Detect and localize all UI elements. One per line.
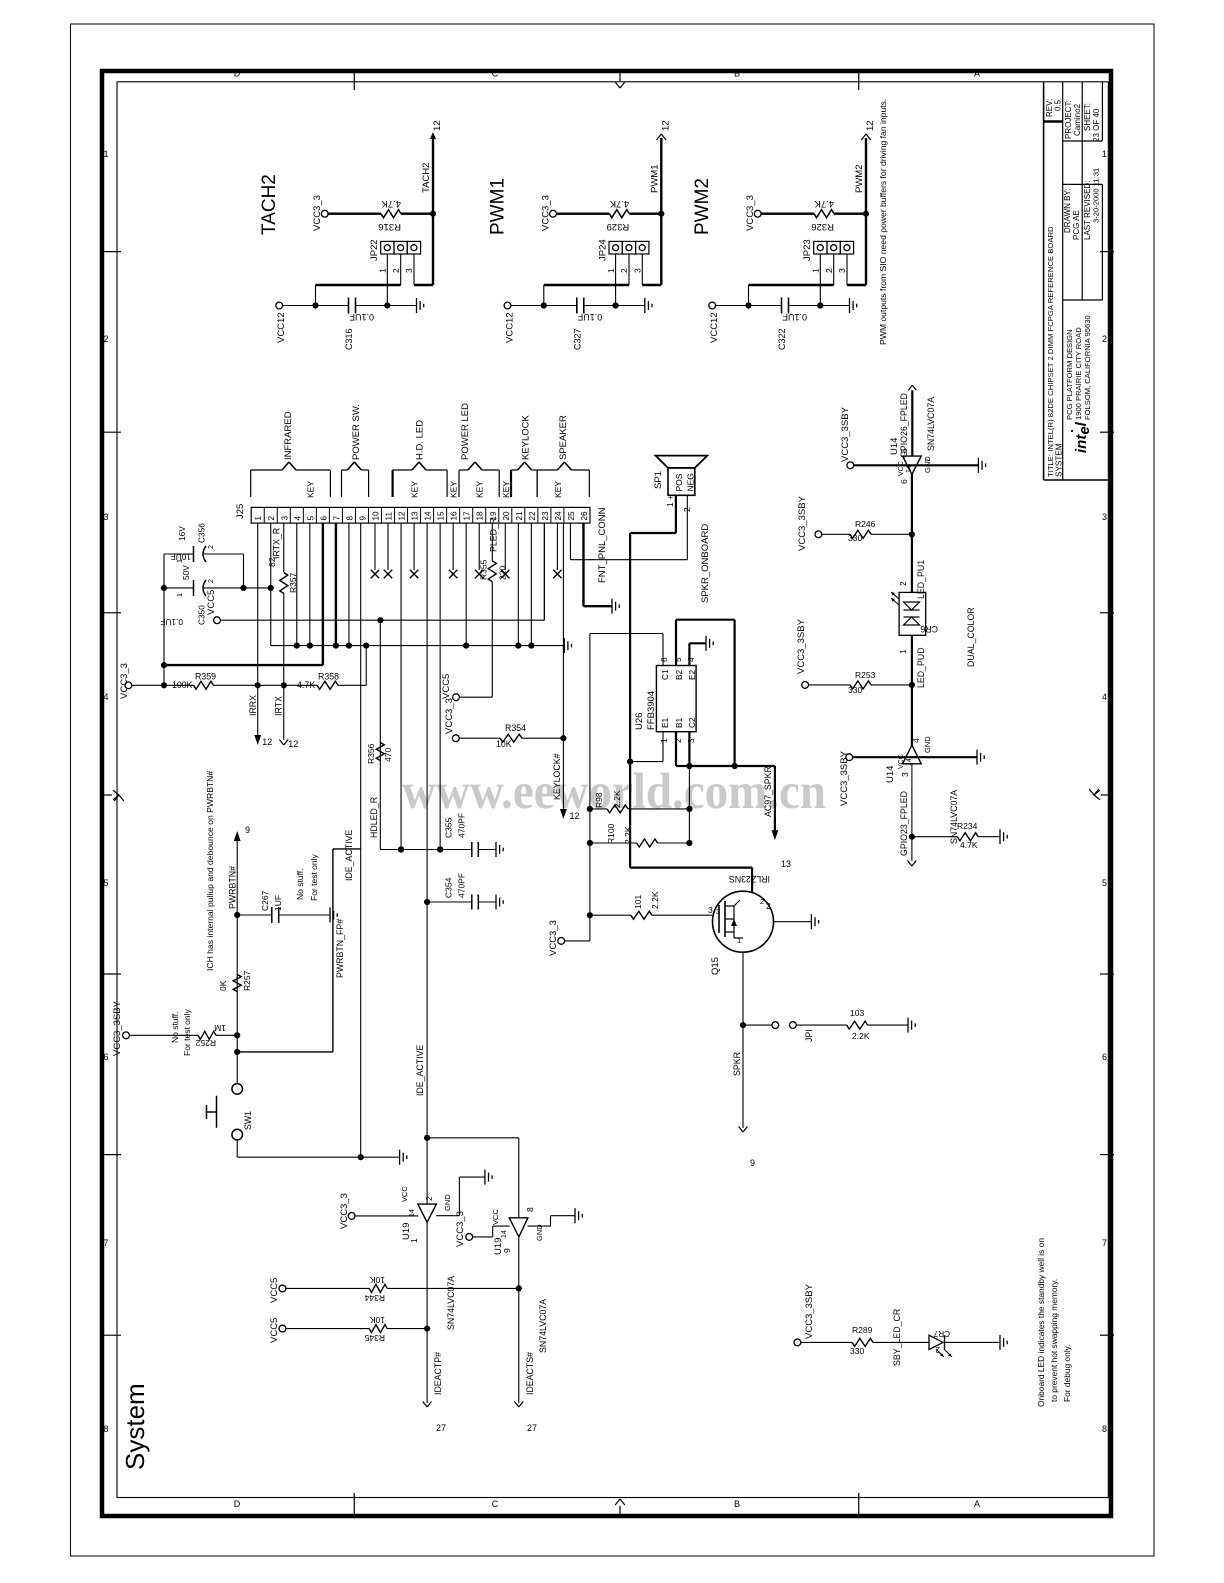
svg-text:KEY: KEY	[305, 481, 315, 498]
svg-text:GND: GND	[535, 1224, 544, 1241]
svg-text:to prevent hot swapping memory: to prevent hot swapping memory.	[1049, 1279, 1059, 1402]
svg-text:0.5: 0.5	[1054, 99, 1063, 111]
svg-text:B2: B2	[674, 669, 684, 680]
arrow IRRX to 12	[254, 735, 261, 745]
wire pin15	[439, 523, 441, 849]
svg-text:12: 12	[570, 811, 580, 821]
svg-text:JP23: JP23	[802, 239, 813, 261]
svg-text:E1: E1	[660, 717, 670, 728]
svg-text:1: 1	[737, 936, 741, 945]
svg-text:3: 3	[633, 268, 643, 273]
svg-text:16: 16	[450, 511, 459, 521]
ground rail B	[563, 638, 565, 653]
resistor R101 2.2K	[590, 914, 631, 916]
wire pin4	[296, 523, 298, 646]
svg-text:4.7K: 4.7K	[814, 198, 834, 209]
svg-text:PWRBTN#: PWRBTN#	[228, 866, 238, 909]
switch SW1	[232, 1084, 243, 1095]
resistor R234 4.7K	[912, 836, 957, 838]
svg-text:330: 330	[848, 533, 862, 543]
bracket POWER SW	[341, 470, 343, 497]
capacitor C350 0.1UF 50V	[164, 587, 194, 589]
wire U26 pin2 B1	[675, 732, 677, 766]
svg-text:PCG PLATFORM DESIGN: PCG PLATFORM DESIGN	[1065, 329, 1074, 420]
svg-text:0.1UF: 0.1UF	[782, 312, 807, 322]
wire rail D	[132, 684, 194, 686]
svg-text:C: C	[492, 1499, 499, 1509]
wire VCC5 rail A	[220, 619, 544, 621]
svg-text:R356: R356	[366, 743, 376, 764]
svg-text:6: 6	[319, 516, 328, 521]
svg-text:C355: C355	[444, 817, 454, 838]
svg-text:R98: R98	[594, 792, 604, 808]
svg-text:PWM1: PWM1	[487, 178, 508, 235]
wire ground rail B	[271, 645, 565, 647]
bracket POWER LED	[458, 470, 460, 497]
resistor R100 2.2K	[590, 842, 637, 844]
svg-text:SN74LVC07A: SN74LVC07A	[926, 397, 936, 451]
svg-text:R253: R253	[855, 670, 876, 680]
node PWM2 wire	[863, 211, 869, 217]
LED CR6 DUAL_COLOR	[899, 592, 926, 635]
ground SW1	[399, 1150, 401, 1165]
svg-text:IRTX_R: IRTX_R	[271, 528, 281, 559]
svg-text:TACH2: TACH2	[259, 174, 280, 235]
offpage arrow AC97_SPKR 13	[772, 830, 779, 840]
offpage arrow KEYLOCK# 12	[560, 809, 567, 819]
svg-text:KEYLOCK#: KEYLOCK#	[552, 753, 562, 800]
svg-text:Q15: Q15	[710, 957, 721, 975]
buffer U14 unit B (pins 4/3)	[903, 745, 922, 764]
svg-text:14: 14	[409, 1209, 416, 1217]
svg-text:PLED_R: PLED_R	[488, 518, 498, 552]
svg-text:INFRARED: INFRARED	[283, 411, 294, 460]
resistor R358 4.7K	[317, 681, 338, 689]
power symbol VCC12 (PWM1)	[504, 302, 511, 309]
jumper JP23	[814, 241, 827, 254]
svg-text:A: A	[974, 1499, 980, 1509]
ground U19A	[436, 1215, 459, 1217]
wire JP23 pin3	[846, 254, 848, 285]
svg-text:Onboard LED indicates the stan: Onboard LED indicates the standby well i…	[1036, 1238, 1046, 1407]
wire pin21	[517, 523, 519, 646]
svg-text:8: 8	[525, 1207, 535, 1212]
svg-text:1: 1	[103, 149, 108, 159]
capacitor C267 1UF	[234, 912, 240, 918]
svg-text:C322: C322	[777, 328, 787, 350]
svg-text:3: 3	[708, 905, 713, 915]
svg-text:0.1UF: 0.1UF	[349, 312, 374, 322]
bracket INFRARED	[250, 470, 252, 497]
svg-text:NEG: NEG	[686, 473, 696, 491]
power symbol VCC5 (rail A)	[214, 617, 221, 624]
capacitor C355 470PF	[471, 842, 473, 857]
svg-text:SN74LVC07A: SN74LVC07A	[949, 790, 959, 844]
svg-text:2: 2	[766, 901, 771, 911]
svg-text:4.7K: 4.7K	[297, 680, 315, 690]
resistor R316 4.7K	[328, 212, 381, 214]
power symbol VCC3_3 (PWM1)	[550, 210, 557, 217]
svg-text:23: 23	[541, 511, 550, 521]
resistor R98 2.2K	[590, 808, 607, 810]
svg-text:50V: 50V	[181, 565, 191, 580]
svg-text:9: 9	[502, 1248, 512, 1253]
wire pin9 (to SW1 rail)	[360, 523, 362, 1157]
svg-text:A: A	[974, 69, 980, 79]
svg-text:GND: GND	[443, 1194, 452, 1211]
svg-text:POS: POS	[674, 473, 684, 491]
svg-text:VCC: VCC	[400, 1186, 409, 1202]
svg-text:C2: C2	[687, 717, 697, 728]
svg-text:1900 PRAIRIE CITY ROAD: 1900 PRAIRIE CITY ROAD	[1074, 327, 1083, 420]
svg-text:12: 12	[660, 120, 671, 131]
svg-text:101: 101	[633, 895, 643, 909]
power symbol VCC3_3 (PWM2)	[754, 210, 761, 217]
svg-text:R355: R355	[478, 559, 488, 580]
bracket H.D. LED	[392, 470, 394, 497]
svg-text:KEY: KEY	[449, 481, 459, 498]
svg-text:470PF: 470PF	[457, 813, 467, 838]
X pin 10	[374, 523, 376, 570]
wire U26 pin6 C1 to left rail / VCC3_3	[662, 634, 664, 666]
frame thick border	[102, 71, 1111, 1516]
wire pin23 to VCC5 rail A	[543, 523, 545, 620]
svg-text:R100: R100	[606, 823, 616, 844]
svg-text:12: 12	[432, 120, 443, 131]
wire JP24 pin1	[615, 254, 617, 306]
svg-text:4: 4	[686, 657, 696, 662]
svg-text:1: 1	[175, 559, 184, 563]
wire C355 rail	[380, 849, 472, 851]
svg-text:5: 5	[673, 657, 683, 662]
svg-text:10K: 10K	[496, 739, 512, 749]
ground CR7	[999, 1335, 1001, 1350]
resistor R103 2.2K	[796, 1024, 846, 1026]
svg-text:VCC3_3SBY: VCC3_3SBY	[840, 406, 851, 462]
svg-text:U14: U14	[885, 766, 896, 783]
frame inner line	[117, 82, 1108, 1498]
wire pin12	[400, 523, 402, 849]
svg-text:24: 24	[554, 511, 563, 521]
resistor R354 10K	[452, 735, 459, 742]
resistor R345 10K	[279, 1325, 286, 1332]
svg-text:2: 2	[424, 1196, 434, 1201]
wire LED_PUD to U14B (thick)	[911, 685, 913, 745]
svg-text:6: 6	[899, 479, 909, 484]
svg-text:2: 2	[206, 545, 215, 549]
svg-text:KEY: KEY	[553, 481, 563, 498]
svg-text:VCC3_3SBY: VCC3_3SBY	[796, 618, 807, 674]
svg-text:23 OF 40: 23 OF 40	[1092, 108, 1101, 142]
wire VCC12 rail	[283, 305, 349, 307]
wire JP24 pin2	[628, 254, 630, 285]
svg-text:DRAWN BY:: DRAWN BY:	[1063, 188, 1072, 233]
svg-text:13: 13	[411, 511, 420, 521]
wire pin24 KEYLOCK branch	[562, 523, 564, 738]
svg-text:9: 9	[750, 1158, 755, 1168]
svg-text:DUAL_COLOR: DUAL_COLOR	[966, 607, 976, 667]
wire JP22 pin3	[413, 254, 415, 285]
offpage chevron 12	[861, 134, 866, 140]
svg-text:3: 3	[404, 268, 414, 273]
svg-text:10K: 10K	[370, 1275, 385, 1285]
svg-text:No stuff.: No stuff.	[295, 869, 305, 901]
svg-text:100K: 100K	[172, 680, 193, 690]
svg-text:IDE_ACTIVE: IDE_ACTIVE	[344, 830, 354, 881]
svg-text:POWER LED: POWER LED	[460, 403, 471, 460]
bracket SPEAKER	[536, 470, 538, 497]
svg-text:3: 3	[280, 516, 289, 521]
svg-text:R252: R252	[195, 1038, 216, 1048]
wire JP23 pin2	[833, 254, 835, 285]
svg-text:4: 4	[1102, 692, 1107, 702]
svg-text:R358: R358	[318, 672, 339, 682]
svg-text:C1: C1	[660, 669, 670, 680]
svg-text:4: 4	[293, 516, 302, 521]
svg-text:B1: B1	[674, 717, 684, 728]
svg-text:18: 18	[476, 511, 485, 521]
capacitor C354 470PF	[424, 899, 430, 905]
X pin 16	[452, 523, 454, 570]
svg-text:VCC12: VCC12	[276, 312, 287, 343]
resistor R326 4.7K	[761, 212, 814, 214]
power VCC3_3SBY (U14A)	[847, 462, 854, 469]
svg-text:GND: GND	[923, 736, 932, 753]
power symbol VCC3_3 (left)	[125, 682, 132, 689]
svg-text:PWM outputs from SIO need powe: PWM outputs from SIO need power buffers …	[878, 99, 888, 345]
speaker SP1	[668, 468, 695, 495]
svg-text:VCC5: VCC5	[269, 1278, 280, 1303]
capacitor C322 0.1UF	[781, 298, 783, 314]
wire U19B input from IDE_ACTIVE	[427, 1137, 519, 1139]
svg-text:2: 2	[391, 268, 401, 273]
svg-text:PWM1: PWM1	[649, 165, 660, 194]
svg-text:1M: 1M	[214, 1023, 226, 1033]
svg-text:VCC3_3: VCC3_3	[312, 195, 323, 231]
node TACH2 wire	[430, 211, 436, 217]
resistor R252 1M / VCC3_3SBY	[123, 1032, 130, 1039]
svg-text:R344: R344	[364, 1293, 385, 1303]
svg-text:R316: R316	[378, 221, 401, 232]
X pin 11	[387, 523, 389, 570]
svg-text:VCC3_3SBY: VCC3_3SBY	[839, 750, 850, 806]
svg-text:U26: U26	[634, 713, 645, 730]
svg-text:C: C	[492, 69, 499, 79]
svg-text:1: 1	[254, 516, 263, 521]
svg-text:VCC3_3: VCC3_3	[119, 663, 130, 699]
wire IDEACTS#	[518, 1237, 520, 1403]
resistor R289 330	[801, 1341, 852, 1343]
svg-text:R289: R289	[852, 1325, 873, 1335]
svg-text:C316: C316	[344, 328, 354, 350]
transistor array U26 FFB3904	[656, 666, 696, 732]
svg-text:14: 14	[501, 1230, 508, 1238]
wire JP22 pin1	[386, 254, 388, 306]
svg-text:1UF: 1UF	[273, 895, 283, 911]
wire AC97_SPKR (thick)	[689, 765, 775, 767]
svg-text:4.7K: 4.7K	[381, 198, 401, 209]
wire pin8	[348, 523, 350, 646]
svg-text:For test only: For test only	[309, 853, 319, 901]
svg-text:5: 5	[899, 448, 909, 453]
svg-text:220: 220	[497, 566, 507, 580]
ground U19B	[528, 1225, 551, 1227]
svg-text:IDEACTP#: IDEACTP#	[433, 1352, 443, 1395]
svg-text:D: D	[234, 69, 241, 79]
svg-text:VCC: VCC	[491, 1209, 500, 1225]
svg-text:GPIO26_FPLED: GPIO26_FPLED	[899, 393, 909, 458]
wire IDEACTP#	[426, 1222, 428, 1403]
svg-text:16V: 16V	[177, 526, 187, 541]
svg-text:0.1UF: 0.1UF	[577, 312, 602, 322]
svg-text:2.2K: 2.2K	[852, 1031, 870, 1041]
svg-text:6: 6	[659, 657, 669, 662]
svg-text:1: 1	[175, 593, 184, 597]
svg-text:2.2K: 2.2K	[650, 891, 660, 909]
svg-text:12: 12	[262, 737, 272, 747]
svg-text:330: 330	[848, 685, 862, 695]
svg-text:VCC3_3: VCC3_3	[455, 1211, 466, 1247]
svg-text:R345: R345	[364, 1333, 385, 1343]
power symbol VCC12 (TACH2)	[276, 302, 283, 309]
svg-text:2.2K: 2.2K	[623, 826, 633, 844]
svg-text:SP1: SP1	[653, 471, 664, 489]
svg-text:CR7: CR7	[933, 1329, 950, 1338]
svg-text:22: 22	[528, 511, 537, 521]
svg-text:3-20-2000 11:31: 3-20-2000 11:31	[1092, 168, 1101, 223]
frame centering arrows	[102, 794, 112, 796]
svg-text:VCC3_3SBY: VCC3_3SBY	[804, 1283, 815, 1339]
wire PWRBTN#	[236, 836, 238, 1089]
svg-text:27: 27	[436, 1423, 446, 1433]
node PWM1 wire	[658, 211, 664, 217]
svg-text:D: D	[234, 1499, 241, 1509]
wire pin17	[465, 523, 467, 646]
svg-text:470: 470	[383, 748, 393, 762]
svg-text:B: B	[734, 69, 740, 79]
Q15 internals	[718, 905, 720, 933]
power symbol VCC12 (PWM2)	[709, 302, 716, 309]
svg-text:14: 14	[424, 511, 433, 521]
wire pin1 IRRX	[257, 523, 259, 685]
svg-text:0.1UF: 0.1UF	[160, 617, 183, 627]
svg-text:No stuff.: No stuff.	[170, 1012, 180, 1044]
wire C2 to R98/R100	[688, 766, 690, 843]
wire pin7 (thick)	[335, 523, 337, 646]
svg-text:ICH has internal pullup and de: ICH has internal pullup and debounce on …	[205, 771, 215, 971]
svg-text:R329: R329	[607, 221, 630, 232]
svg-text:1: 1	[659, 738, 669, 743]
wire SW1 to ground rail	[236, 1140, 238, 1157]
svg-text:7: 7	[103, 1238, 108, 1248]
power symbol VCC5 (PLED)	[459, 696, 492, 698]
svg-text:C327: C327	[572, 328, 582, 350]
ground	[849, 298, 851, 313]
resistor R344 10K	[279, 1285, 286, 1292]
svg-text:J25: J25	[235, 504, 246, 519]
svg-text:1: 1	[811, 268, 821, 273]
wire PWRBTN_FP#	[234, 1049, 240, 1055]
X pin 20	[504, 523, 506, 570]
buffer U14 unit A (pins 5/6)	[903, 456, 922, 474]
wire pin26 to GND (thick)	[582, 523, 584, 606]
wire GPIO26_FPLED (thick)	[911, 390, 913, 456]
svg-text:8: 8	[1102, 1424, 1107, 1434]
svg-text:6: 6	[1102, 1052, 1107, 1062]
svg-text:4.7K: 4.7K	[609, 198, 629, 209]
svg-text:VCC3_3: VCC3_3	[444, 698, 455, 734]
svg-text:FOLSOM, CALIFORNIA 95630: FOLSOM, CALIFORNIA 95630	[1083, 315, 1092, 420]
svg-text:1 +: 1 +	[665, 495, 675, 507]
wire pin6 (thick)	[322, 523, 324, 665]
svg-text:2: 2	[673, 738, 683, 743]
svg-text:8: 8	[345, 516, 354, 521]
svg-text:R257: R257	[242, 970, 252, 991]
svg-text:VCC5: VCC5	[269, 1318, 280, 1343]
svg-text:VCC3_3SBY: VCC3_3SBY	[112, 1000, 123, 1056]
svg-text:6: 6	[103, 1052, 108, 1062]
svg-text:VCC5: VCC5	[441, 674, 452, 699]
svg-text:VCC3_3: VCC3_3	[745, 195, 756, 231]
svg-text:JP22: JP22	[369, 239, 380, 261]
wire VCC12 rail	[716, 305, 782, 307]
wire U26 pin5 B2 (thick)	[675, 620, 677, 666]
svg-text:AC97_SPKR: AC97_SPKR	[763, 766, 773, 817]
title block	[1044, 479, 1109, 481]
capacitor C316 0.1UF	[348, 298, 350, 314]
svg-text:27: 27	[527, 1423, 537, 1433]
wire JP23 pin1	[819, 254, 821, 306]
wire U26 pin1 E1 to SPKR	[662, 732, 664, 762]
svg-text:VCC: VCC	[898, 461, 905, 476]
wire U26 pin3 C2	[688, 732, 690, 766]
svg-text:R359: R359	[195, 672, 216, 682]
CR6 emission arrows	[891, 592, 899, 599]
ground	[644, 298, 646, 313]
svg-text:2: 2	[935, 1345, 940, 1354]
wire pin14 IDE_ACTIVE	[426, 523, 428, 1204]
svg-text:3: 3	[686, 738, 696, 743]
wire U14A out to LED_PU1 (thick)	[911, 474, 913, 592]
svg-text:21: 21	[515, 511, 524, 521]
svg-text:SPKR: SPKR	[732, 1052, 742, 1076]
X pin 13	[413, 523, 415, 570]
svg-text:C350: C350	[197, 605, 207, 625]
wire CR6 pin1 to LED_PUD	[911, 635, 913, 685]
svg-text:2: 2	[103, 334, 108, 344]
svg-text:JP24: JP24	[597, 239, 608, 261]
X pin 18	[478, 523, 480, 570]
svg-text:2: 2	[824, 268, 834, 273]
wire JP22 pin2	[400, 254, 402, 285]
svg-text:C267: C267	[260, 890, 270, 911]
jumper JP1	[743, 1024, 772, 1026]
wire pin5	[309, 523, 311, 646]
wire pin22	[530, 523, 532, 646]
capacitor C327 0.1UF	[576, 298, 578, 314]
svg-text:26: 26	[580, 511, 589, 521]
svg-text:For test only: For test only	[182, 1008, 192, 1056]
svg-text:FNT_PNL_CONN: FNT_PNL_CONN	[597, 507, 608, 583]
svg-text:13: 13	[781, 859, 791, 869]
svg-text:14: 14	[906, 465, 913, 473]
power VCC3_3 (U19B)	[466, 1234, 473, 1241]
svg-text:SPEAKER: SPEAKER	[558, 415, 569, 460]
ground U14B	[976, 750, 978, 765]
svg-text:PCG AE: PCG AE	[1072, 210, 1081, 240]
svg-text:5: 5	[306, 516, 315, 521]
svg-text:IDE_ACTIVE: IDE_ACTIVE	[415, 1045, 425, 1096]
